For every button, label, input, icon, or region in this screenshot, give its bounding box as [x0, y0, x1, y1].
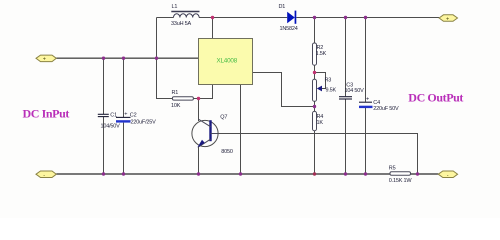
svg-text:R2: R2: [317, 45, 324, 51]
svg-text:L1: L1: [172, 4, 178, 10]
wire top-left vertical riser: [156, 18, 158, 59]
node C4 bottom: [364, 172, 367, 175]
svg-text:220uF 50V: 220uF 50V: [373, 106, 399, 112]
node C2 bottom: [122, 172, 125, 175]
svg-text:8050: 8050: [221, 149, 233, 155]
IC U1 XL4008 regulator: [199, 39, 253, 85]
svg-text:R4: R4: [317, 114, 324, 120]
wire input rail: [56, 57, 198, 59]
wire C3 top: [345, 18, 347, 97]
svg-text:XL4008: XL4008: [217, 57, 238, 64]
node C3 top: [344, 16, 347, 19]
wire Q7 emitter to ground: [198, 147, 200, 175]
capacitor C4 electrolytic: [359, 97, 373, 109]
capacitor C2 electrolytic: [116, 112, 131, 123]
node R1 right: [197, 97, 200, 100]
node dots: [102, 16, 419, 176]
node IC ground: [239, 172, 242, 175]
wire R3 to R4: [314, 101, 316, 111]
svg-text:R3: R3: [325, 78, 332, 84]
svg-text:+: +: [446, 16, 449, 22]
resistor R1: [172, 97, 193, 100]
wire L1 to node after inductor: [199, 17, 287, 19]
node C4 top: [364, 16, 367, 19]
wire Q7 base feedback line: [218, 134, 417, 175]
svg-text:1.5K: 1.5K: [316, 51, 327, 57]
node R3 R4 junction: [313, 105, 316, 108]
svg-text:33uH 5A: 33uH 5A: [171, 21, 192, 27]
node R4 ground: [313, 172, 316, 175]
wire IC right pin feedback: [253, 73, 315, 107]
wire R2 to R3: [314, 65, 316, 79]
wire D1 cathode to output rail: [296, 17, 439, 19]
resistor R5: [390, 172, 411, 175]
wire C3 bottom: [345, 99, 347, 174]
svg-text:R1: R1: [172, 90, 179, 96]
potentiometer R3: [313, 79, 323, 101]
svg-text:C2: C2: [130, 113, 137, 119]
resistor R2: [313, 43, 317, 65]
svg-text:Q7: Q7: [220, 114, 227, 120]
wire C4 top: [365, 18, 367, 102]
wire C1 top: [103, 58, 105, 114]
wire IC top pin: [212, 18, 214, 39]
node R2 R3 tap: [313, 71, 316, 74]
svg-text:R5: R5: [389, 166, 396, 172]
node C1 bottom: [102, 172, 105, 175]
wire C2 top: [123, 58, 125, 117]
wire R1 left drop: [157, 58, 173, 98]
svg-text:D1: D1: [279, 4, 286, 10]
resistor R4: [313, 111, 317, 130]
svg-text:1N5824: 1N5824: [280, 26, 298, 32]
svg-text:0.15K 1W: 0.15K 1W: [389, 178, 413, 184]
node C2 top: [122, 57, 125, 60]
svg-text:+: +: [124, 112, 127, 118]
wire R3 wiper tap: [315, 73, 326, 89]
svg-text:1K: 1K: [317, 120, 324, 126]
inductor L1: [171, 12, 199, 18]
svg-text:+: +: [366, 97, 369, 103]
wire node to Q7 collector: [198, 99, 200, 122]
wire R2 top: [314, 18, 316, 44]
svg-text:+: +: [43, 57, 46, 63]
svg-text:DC OutPut: DC OutPut: [408, 91, 463, 105]
port DC output plus: [439, 15, 457, 22]
node Q7 emitter ground: [197, 172, 200, 175]
transistor Q7: [192, 119, 218, 147]
diode D1: [287, 11, 296, 24]
wire C2 bottom: [123, 123, 125, 174]
wire C4 bottom: [365, 108, 367, 174]
svg-text:C4: C4: [373, 100, 380, 106]
capacitor C3: [339, 97, 352, 99]
node R5 right: [416, 172, 419, 175]
port DC output minus: [438, 171, 457, 179]
svg-text:DC InPut: DC InPut: [23, 107, 70, 121]
svg-text:220uF/25V: 220uF/25V: [131, 119, 157, 125]
node D1 out: [313, 16, 316, 19]
wire C1 bottom: [103, 117, 105, 174]
svg-text:10K: 10K: [171, 103, 181, 109]
port DC input minus: [36, 171, 56, 179]
node L1 out: [211, 16, 214, 19]
wire R5 right to port: [411, 173, 439, 175]
wire R4 bottom to ground: [314, 131, 316, 174]
node L1 riser: [155, 57, 158, 60]
capacitor C1: [98, 114, 109, 116]
wire ground rail: [56, 173, 390, 175]
node C3 bottom: [344, 172, 347, 175]
wire top rail to L1: [157, 17, 174, 19]
wire R1 right to IC pin: [193, 85, 212, 99]
port DC input plus: [36, 55, 56, 63]
node C1 top: [102, 57, 105, 60]
svg-text:104 50V: 104 50V: [345, 88, 365, 94]
svg-text:9.5K: 9.5K: [326, 87, 337, 93]
svg-text:104/50V: 104/50V: [101, 123, 121, 129]
wire IC ground pin: [240, 85, 242, 175]
